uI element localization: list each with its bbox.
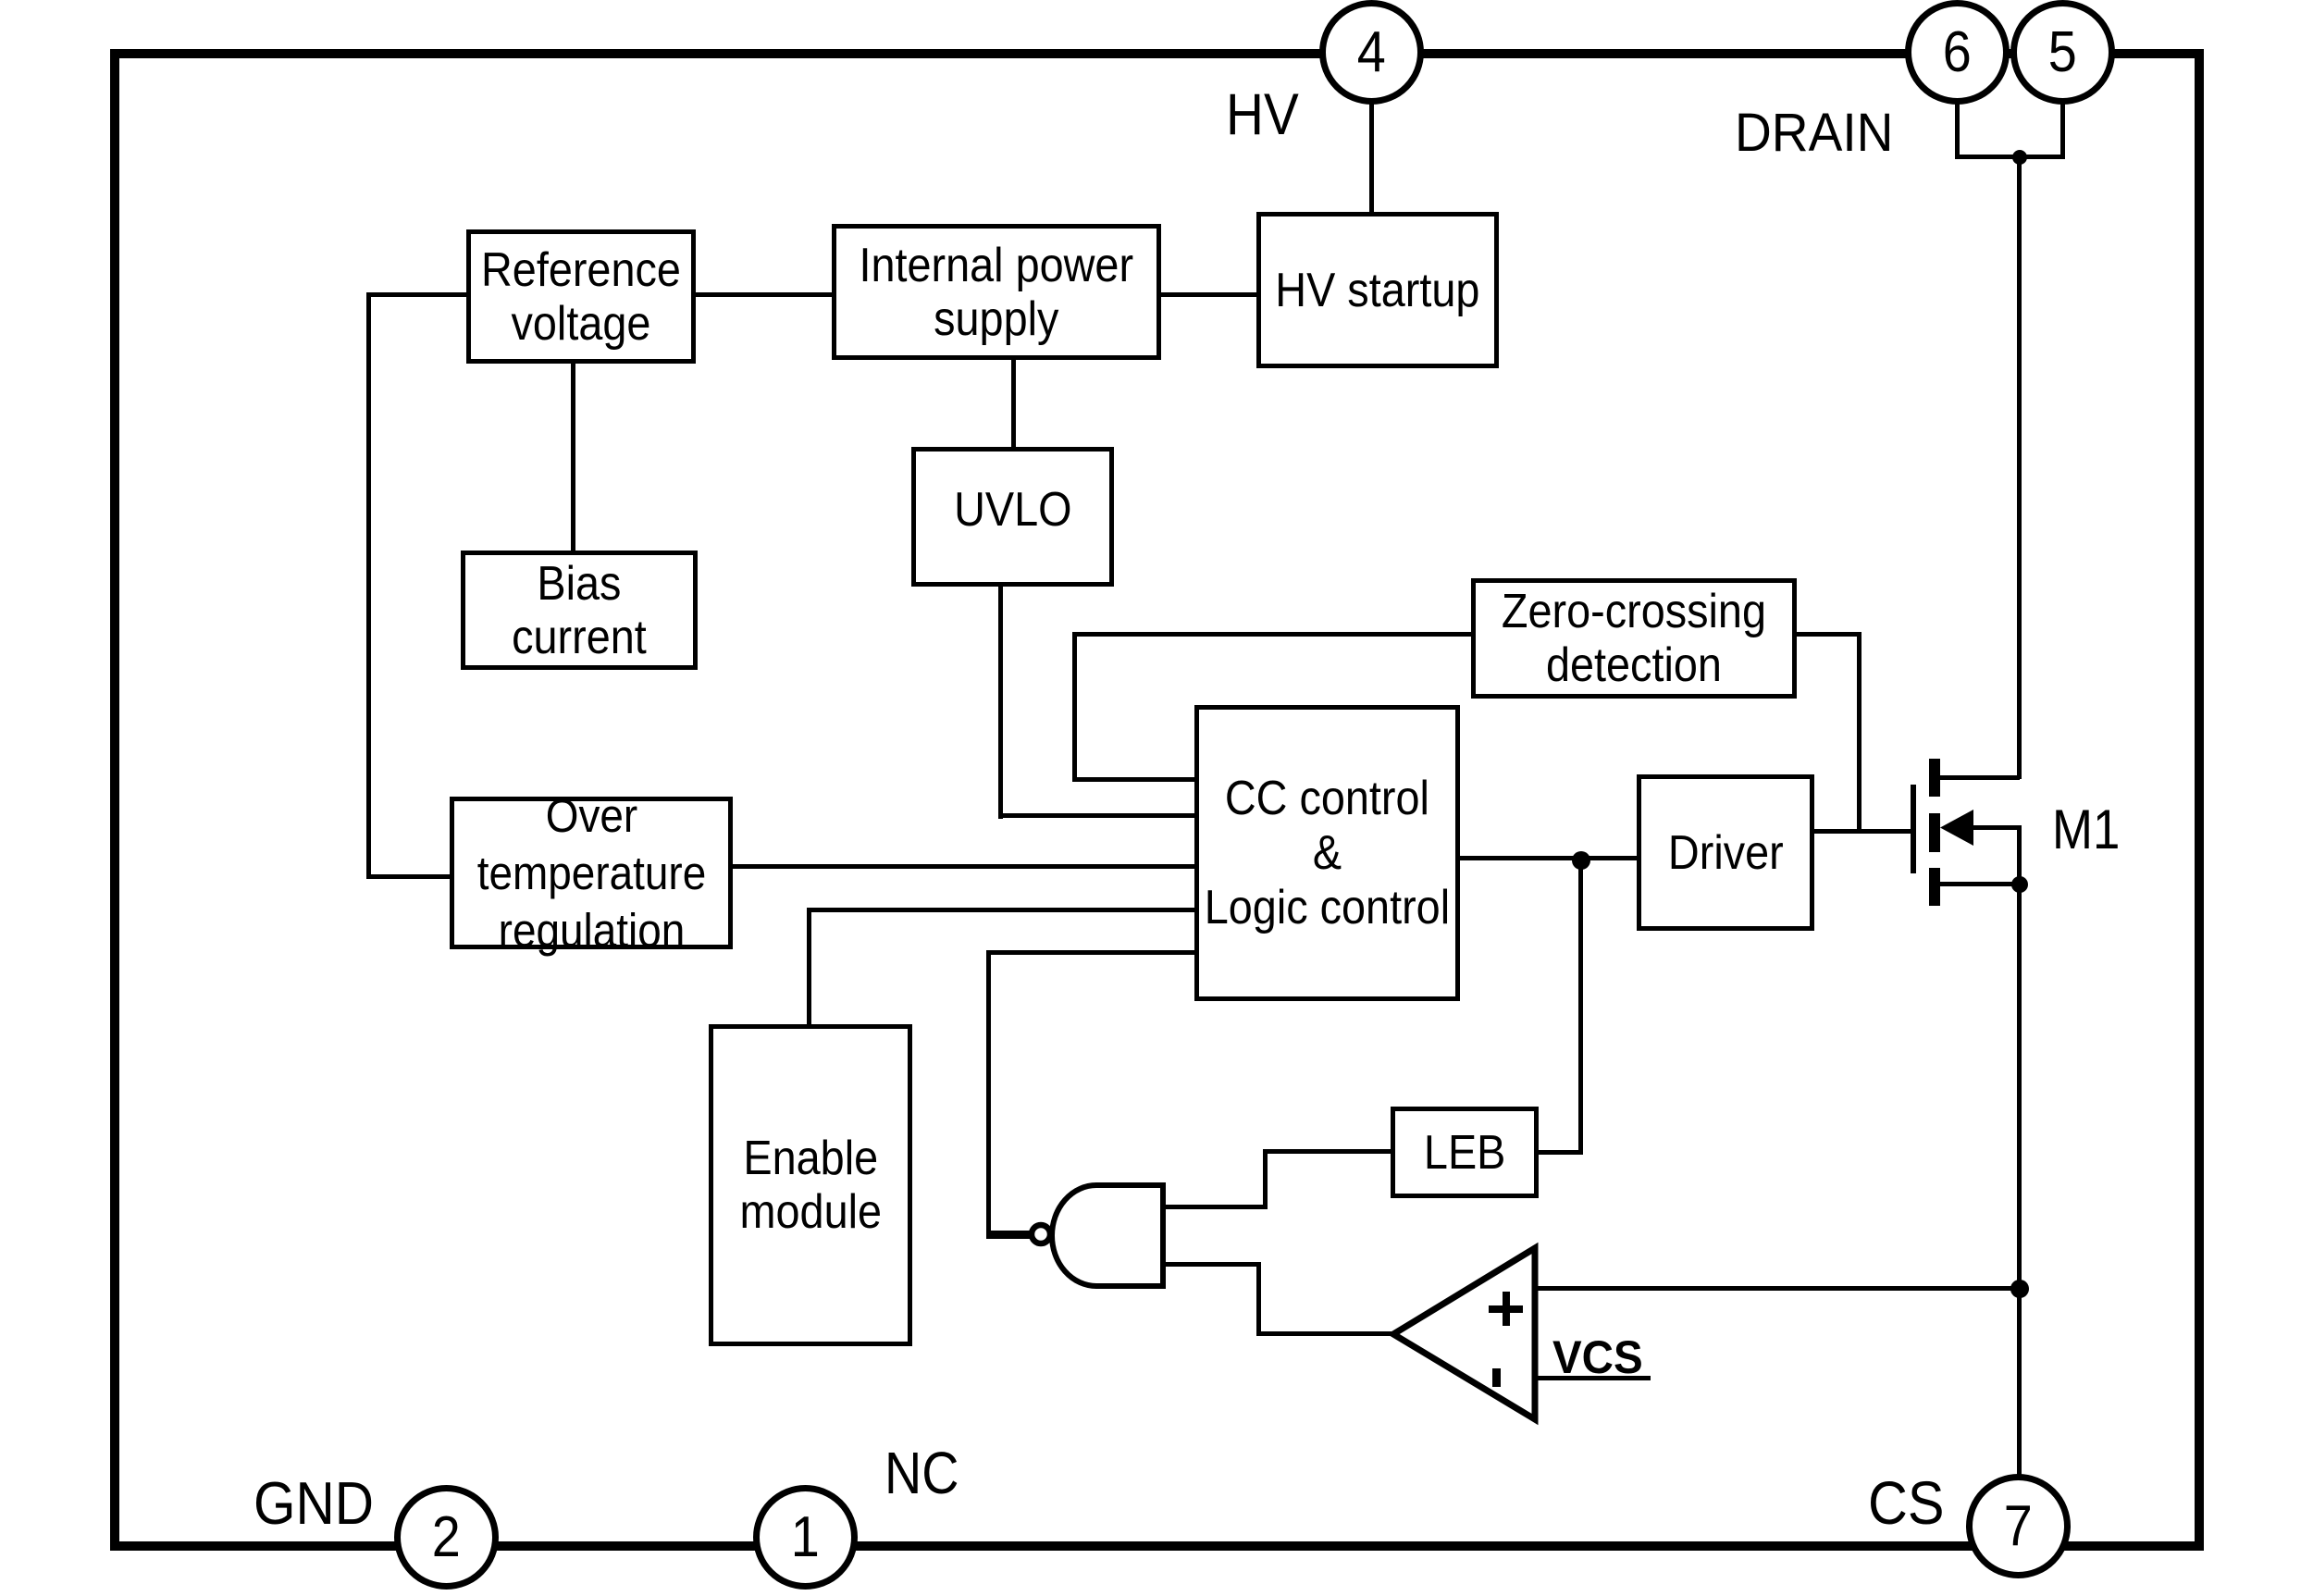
- wire: NAND top input vertical: [1263, 1149, 1268, 1209]
- wire: pin 6-5 join: [1955, 155, 2063, 159]
- pin 1: [753, 1485, 858, 1590]
- wire: left vertical bus: [366, 292, 371, 879]
- label HV: [1226, 86, 1299, 144]
- wire: reference voltage to internal power supply: [691, 292, 835, 297]
- wire: NAND top input stub: [1162, 1205, 1268, 1209]
- wire: UVLO to CC control: [998, 813, 1198, 818]
- wire: zero-crossing left horizontal: [1073, 632, 1475, 637]
- block Reference voltage: [466, 229, 696, 364]
- junction dot CS comparator: [2010, 1280, 2029, 1298]
- label GND: [254, 1473, 374, 1533]
- junction dot MOSFET source: [2011, 876, 2028, 893]
- wire: MOSFET body horizontal: [1973, 825, 2020, 830]
- block Driver: [1637, 774, 1814, 931]
- wire: enable module to CC control: [807, 908, 1198, 912]
- wire: MOSFET source horizontal: [1940, 882, 2020, 886]
- pin 2: [394, 1485, 499, 1590]
- wire: internal power supply to UVLO: [1011, 355, 1016, 451]
- junction dot gate node: [1572, 851, 1590, 870]
- wire: CS to comparator plus input: [1533, 1286, 2020, 1291]
- block CC control & Logic control: [1194, 705, 1460, 1001]
- wire: drain vertical: [2017, 155, 2022, 779]
- block LEB: [1391, 1107, 1539, 1198]
- comparator triangle: [1393, 1248, 1535, 1419]
- NAND gate bubble: [1032, 1225, 1050, 1243]
- junction dot pins 6-5: [2012, 150, 2027, 165]
- pin 4: [1319, 0, 1424, 105]
- wire: NAND bottom input vertical: [1256, 1262, 1261, 1336]
- block Bias current: [461, 551, 698, 670]
- wire: NAND output to CC control: [986, 950, 1198, 955]
- wire: over temperature to CC control: [730, 864, 1198, 869]
- transistor M1 body pad: [1929, 813, 1940, 852]
- wire: zero-crossing right horizontal: [1792, 632, 1862, 637]
- wire: reference voltage left stub: [367, 292, 470, 297]
- wire: driver to MOSFET gate: [1810, 829, 1913, 834]
- wire: NAND bottom input stub: [1162, 1262, 1261, 1267]
- wire: VCS stub / underline: [1533, 1376, 1651, 1380]
- wire: NAND output stub: [986, 1231, 1031, 1239]
- wire: zero-crossing left vertical: [1072, 632, 1077, 782]
- transistor M1 gate bar: [1911, 785, 1916, 873]
- block Zero-crossing detection: [1471, 578, 1797, 699]
- wire: to comparator tip: [1256, 1331, 1399, 1336]
- wire: NAND output vertical: [986, 950, 991, 1237]
- label NC: [884, 1443, 959, 1503]
- block Enable module: [709, 1024, 912, 1346]
- block UVLO: [911, 447, 1114, 587]
- NAND gate body: [1052, 1185, 1163, 1286]
- transistor M1 source pad: [1929, 868, 1940, 906]
- comparator plus sign: [1489, 1305, 1523, 1313]
- transistor M1 body arrow: [1940, 810, 1973, 846]
- wire: internal power supply to HV startup: [1156, 292, 1260, 297]
- label VCS: [1552, 1334, 1643, 1380]
- pin 7: [1966, 1474, 2071, 1578]
- wire: reference voltage to bias current: [571, 359, 575, 554]
- wire: enable module vertical: [807, 908, 811, 1028]
- wire: pin 6 down: [1955, 102, 1960, 159]
- wire: zero-crossing right vertical to gate node: [1857, 632, 1862, 834]
- block Internal power supply: [832, 224, 1161, 360]
- wire: pin 4 to HV startup: [1369, 102, 1374, 216]
- wire: into CC control top-left: [1072, 777, 1198, 782]
- wire: CS vertical: [2017, 825, 2022, 1477]
- wire: to LEB left: [1263, 1149, 1394, 1154]
- block Over temperature regulation: [450, 797, 733, 949]
- pin 6: [1905, 0, 2010, 105]
- pin 5: [2010, 0, 2115, 105]
- wire: into over temperature regulation left: [366, 874, 454, 879]
- wire: LEB right stub: [1534, 1150, 1583, 1155]
- comparator minus sign: [1492, 1368, 1501, 1387]
- block HV startup: [1256, 212, 1499, 368]
- wire: UVLO down: [998, 582, 1003, 819]
- label M1: [2052, 802, 2120, 858]
- wire: MOSFET drain horizontal: [1940, 775, 2020, 780]
- transistor M1 drain pad: [1929, 759, 1940, 797]
- wire: CC control to driver: [1455, 856, 1640, 860]
- wire: gate node vertical down to LEB: [1578, 856, 1583, 1155]
- label CS: [1868, 1472, 1945, 1533]
- label DRAIN: [1735, 106, 1893, 160]
- wire: pin 5 down: [2060, 102, 2065, 159]
